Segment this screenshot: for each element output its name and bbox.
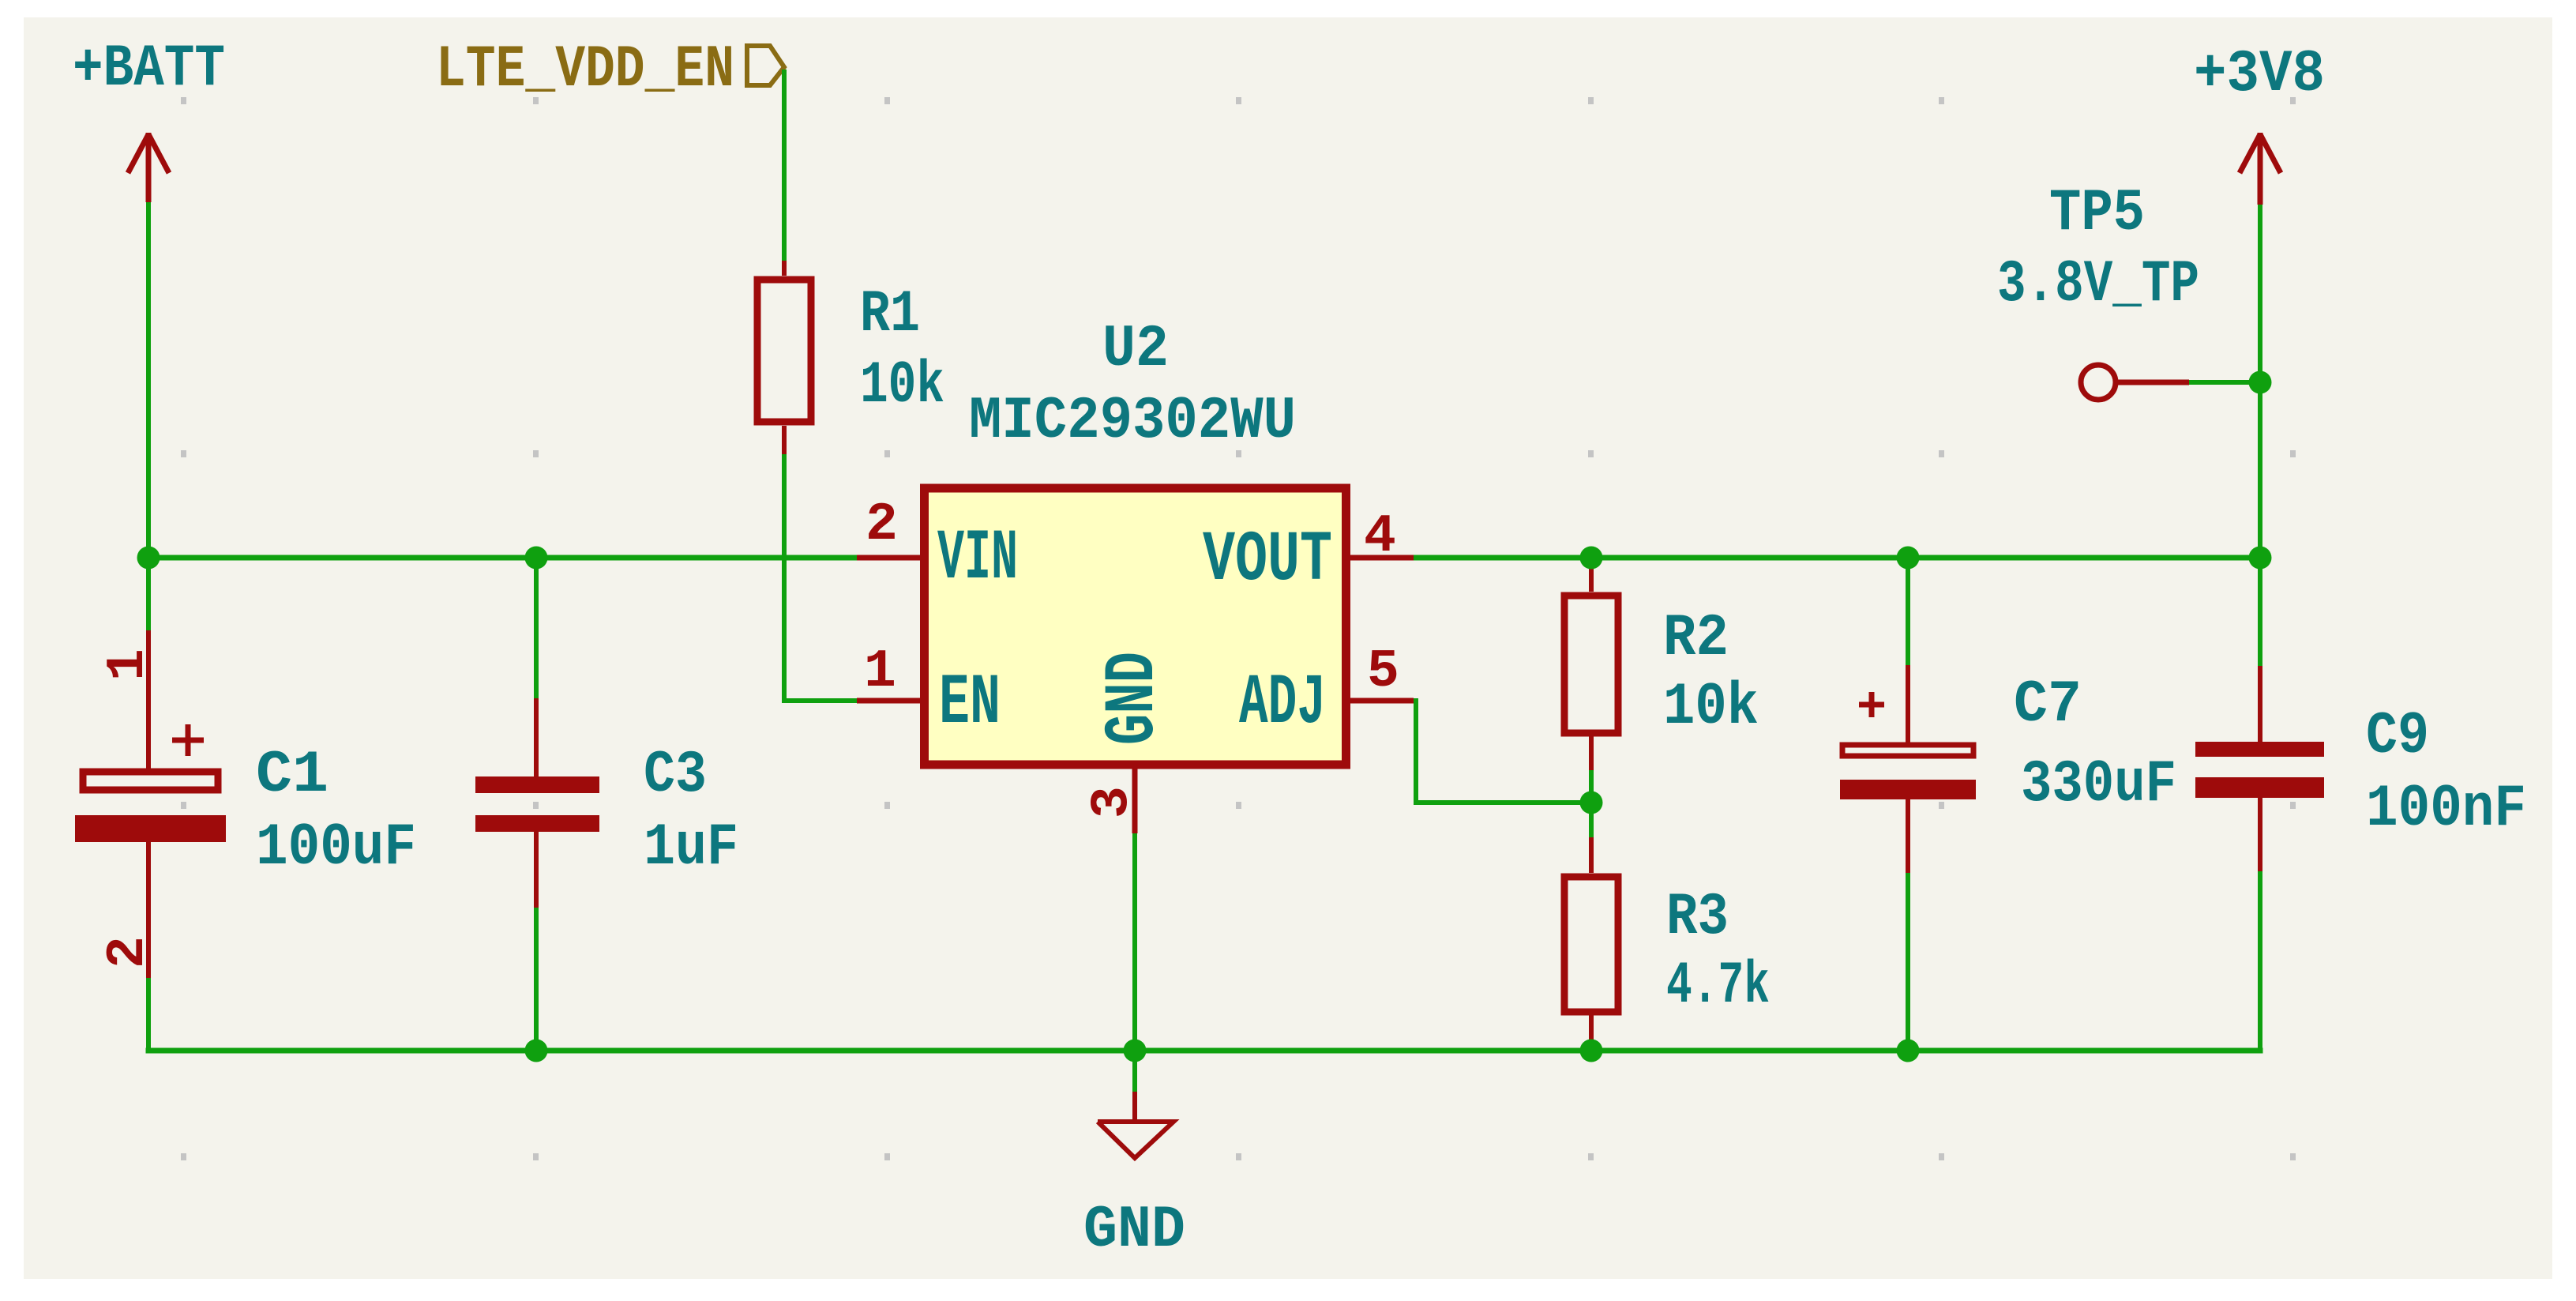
capacitor C1 <box>75 558 416 1051</box>
pin 3 GND <box>1082 652 1174 833</box>
svg-text:TP5: TP5 <box>2049 180 2145 247</box>
wire VOUT bus <box>1414 555 2260 561</box>
wire ADJ to divider <box>1414 701 1591 803</box>
test point TP5 <box>1997 180 2199 400</box>
wire junction to ground symbol <box>1132 1051 1137 1092</box>
wire +BATT down to bus <box>146 202 151 558</box>
svg-text:C9: C9 <box>2366 703 2429 770</box>
wire +3V8 down <box>2258 205 2262 558</box>
junction gnd/C3 <box>525 1040 548 1062</box>
svg-text:+BATT: +BATT <box>73 36 225 103</box>
junction gnd/R3 <box>1580 1040 1603 1062</box>
svg-text:C3: C3 <box>644 742 707 809</box>
wire GND pin down <box>1132 833 1137 1051</box>
svg-text:U2: U2 <box>1102 316 1169 383</box>
junction VOUT/C9 <box>2249 547 2272 570</box>
svg-text:1uF: 1uF <box>644 814 738 882</box>
resistor R3 <box>1564 803 1770 1051</box>
svg-text:GND: GND <box>1083 1197 1185 1264</box>
junction TP5 <box>2249 371 2272 394</box>
svg-text:R3: R3 <box>1666 884 1729 951</box>
wire label LTE_VDD_EN down to R1 <box>782 70 787 261</box>
svg-text:1: 1 <box>864 641 896 702</box>
wire R1 to EN <box>784 454 857 701</box>
svg-text:EN: EN <box>939 664 1001 744</box>
svg-text:100uF: 100uF <box>256 814 416 882</box>
resistor R2 <box>1564 558 1759 803</box>
ground <box>1083 1092 1185 1264</box>
svg-text:330uF: 330uF <box>2021 751 2176 818</box>
svg-text:C7: C7 <box>2014 671 2082 739</box>
svg-text:10k: 10k <box>1663 674 1759 741</box>
global label LTE_VDD_EN <box>436 36 784 103</box>
junction bus/C3 <box>525 547 548 570</box>
svg-text:4.7k: 4.7k <box>1666 953 1770 1020</box>
svg-text:5: 5 <box>1367 641 1399 702</box>
pin 4 VOUT <box>1203 506 1414 601</box>
svg-text:100nF: 100nF <box>2366 776 2526 843</box>
svg-text:4: 4 <box>1364 506 1396 567</box>
svg-text:LTE_VDD_EN: LTE_VDD_EN <box>436 36 734 103</box>
svg-text:R1: R1 <box>860 281 920 348</box>
wire main input bus <box>148 555 857 561</box>
svg-text:1: 1 <box>98 649 159 681</box>
svg-text:ADJ: ADJ <box>1239 664 1326 744</box>
junction VOUT/C7 <box>1897 547 1920 570</box>
capacitor C3 <box>475 558 738 1051</box>
svg-text:3.8V_TP: 3.8V_TP <box>1997 251 2199 318</box>
svg-text:VIN: VIN <box>937 519 1018 600</box>
svg-text:VOUT: VOUT <box>1203 521 1332 601</box>
svg-text:R2: R2 <box>1663 605 1729 672</box>
junction bus/+BATT <box>137 547 160 570</box>
capacitor C7 <box>1840 558 2176 1051</box>
capacitor C9 <box>2195 558 2526 1051</box>
junction gnd/C7 <box>1897 1040 1920 1062</box>
junction gnd/U2 <box>1124 1040 1147 1062</box>
svg-text:GND: GND <box>1094 652 1174 745</box>
svg-text:MIC29302WU: MIC29302WU <box>969 388 1296 455</box>
pin 2 VIN <box>857 494 1018 600</box>
wire ground bus <box>148 1048 2260 1054</box>
resistor R1 <box>757 261 944 454</box>
power symbol +BATT <box>128 133 169 202</box>
junction R2/R3/ADJ <box>1580 792 1603 814</box>
junction VOUT/R2 <box>1580 547 1603 570</box>
svg-text:C1: C1 <box>256 742 329 809</box>
svg-text:+3V8: +3V8 <box>2194 41 2325 108</box>
wire TP5 to +3V8 <box>2189 380 2260 385</box>
svg-text:3: 3 <box>1082 786 1143 818</box>
op-amp U2 MIC29302WU body <box>925 316 1346 765</box>
power symbol +3V8 <box>2240 133 2281 205</box>
pin 1 EN <box>857 641 1001 744</box>
svg-text:2: 2 <box>866 494 898 555</box>
svg-text:10k: 10k <box>860 352 944 419</box>
pin 5 ADJ <box>1239 641 1414 744</box>
svg-text:2: 2 <box>98 936 159 968</box>
